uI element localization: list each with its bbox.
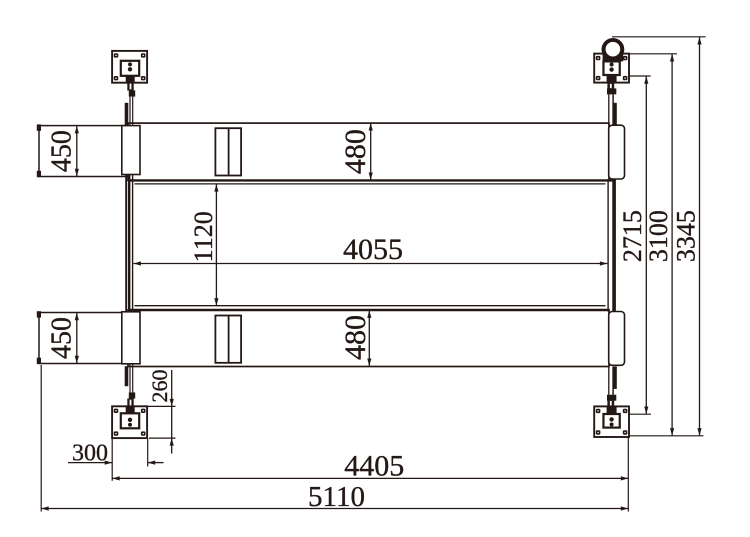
left crossbeam block on top runway [122, 126, 140, 175]
svg-text:450: 450 [47, 130, 78, 172]
right slider block on top runway [609, 125, 625, 179]
top runway rolling-jack rail [215, 128, 241, 175]
dimension 3345 [612, 37, 706, 436]
dimension 4405 [112, 438, 628, 512]
left cross rail between runways [126, 175, 132, 314]
dimension 3100 [629, 54, 703, 436]
bottom-left post stem [125, 364, 136, 414]
dimension 480 top [339, 123, 373, 180]
bottom-left post base plate [112, 406, 147, 438]
svg-text:5110: 5110 [308, 481, 365, 513]
bottom-right post base plate [594, 406, 629, 437]
svg-text:1120: 1120 [189, 211, 218, 262]
top-right post stem [607, 75, 617, 125]
svg-text:3100: 3100 [644, 210, 673, 262]
svg-text:480: 480 [339, 129, 372, 174]
bottom runway left approach section [37, 311, 128, 364]
svg-text:260: 260 [147, 370, 172, 403]
bottom runway rolling-jack rail [215, 316, 241, 363]
motor pulley disc on top-right post [602, 38, 625, 61]
svg-text:480: 480 [339, 315, 372, 360]
svg-text:3345: 3345 [672, 210, 701, 262]
bottom runway main body [128, 306, 610, 367]
top-left post stem [125, 76, 136, 126]
top runway main body [128, 123, 614, 184]
dimension 2715 [618, 76, 651, 414]
dimension 480 bottom [339, 310, 372, 366]
dimension 1120 [189, 184, 219, 306]
dimension 300 [68, 438, 164, 481]
top-right post base plate [594, 54, 629, 83]
dimension 450 top [47, 126, 79, 176]
dimension 260 [144, 370, 176, 454]
left crossbeam block on bottom runway [122, 312, 140, 364]
svg-text:4055: 4055 [343, 233, 403, 266]
right cross rail between runways [608, 179, 614, 312]
svg-text:450: 450 [46, 317, 77, 359]
dimension 4055 [133, 233, 607, 266]
svg-text:4405: 4405 [344, 450, 404, 483]
dimension 450 bottom [46, 313, 78, 363]
top runway left approach section [37, 124, 128, 177]
right slider block on bottom runway [609, 312, 625, 366]
dimension 5110 [41, 365, 628, 513]
top-left post base plate [112, 51, 147, 83]
svg-text:2715: 2715 [618, 210, 647, 262]
top-right post socket [603, 61, 619, 82]
svg-text:300: 300 [72, 441, 108, 467]
bottom-right post stem [607, 367, 617, 415]
